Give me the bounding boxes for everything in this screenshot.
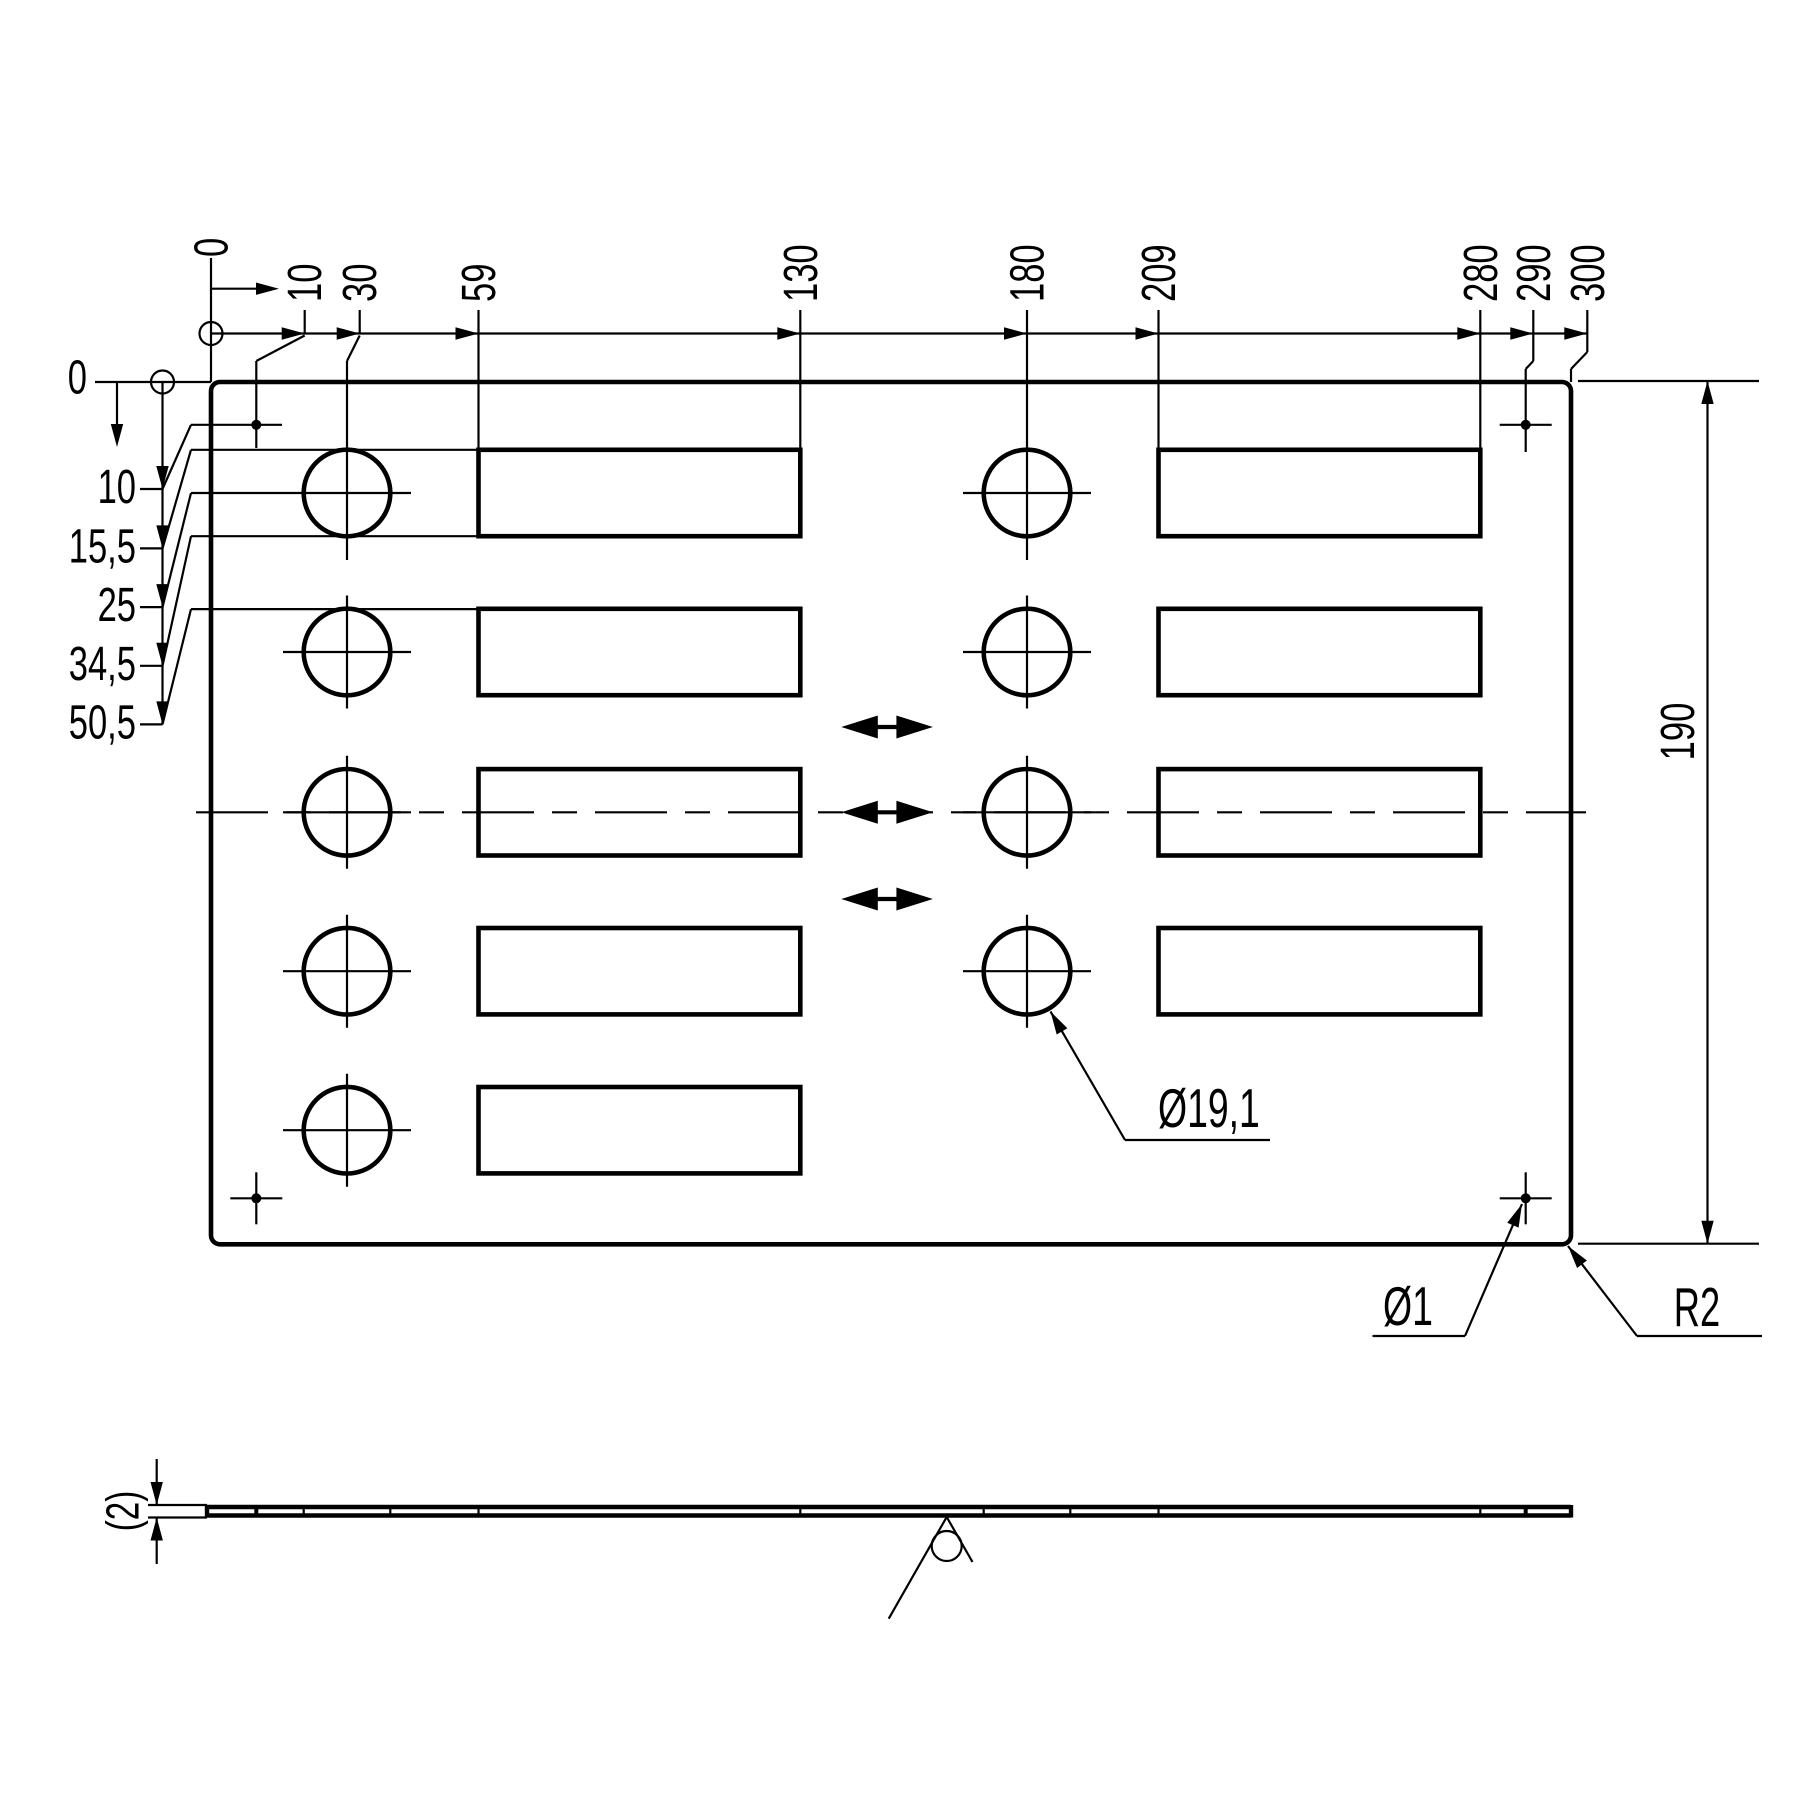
svg-text:300: 300 — [1560, 244, 1614, 302]
slot right column row 1 — [1159, 450, 1481, 536]
svg-text:130: 130 — [773, 244, 827, 302]
surface finish symbol (machining allowed, all over) — [889, 1517, 947, 1619]
centreline horizontal, right hole row 4 — [963, 970, 1091, 972]
svg-text:25: 25 — [98, 577, 136, 631]
svg-text:(2): (2) — [98, 1491, 148, 1531]
slot left column row 5 — [479, 1087, 801, 1173]
leader Ø1 (corner hole diameter) — [1507, 1204, 1522, 1228]
centreline vertical, left hole row 4 — [346, 915, 348, 1028]
svg-text:30: 30 — [333, 264, 387, 302]
dimension 190 extension line bottom — [1578, 1243, 1759, 1245]
centreline horizontal, left hole row 2 — [283, 651, 411, 653]
hole Ø19,1 left column row 2 — [304, 609, 391, 696]
dimension (2) arrows — [156, 1459, 158, 1505]
slot left column row 3 — [479, 769, 801, 855]
top ordinate dimension line — [211, 332, 1588, 334]
left ordinate dimension line — [161, 382, 163, 724]
centreline vertical, left hole row 2 — [346, 596, 348, 709]
hole Ø1 bottom-left centre mark — [251, 1193, 261, 1203]
double-headed arrow 1 (slide direction symbol) — [865, 725, 909, 729]
side view left end cap — [205, 1505, 209, 1518]
centreline vertical, right hole row 2 — [1026, 596, 1028, 709]
side view bottom surface line — [207, 1513, 1571, 1517]
svg-text:34,5: 34,5 — [69, 636, 136, 690]
left ordinate direction arrow — [116, 382, 118, 424]
slot left column row 4 — [479, 928, 801, 1014]
svg-text:15,5: 15,5 — [69, 519, 136, 573]
dimension 190 line — [1706, 381, 1708, 1244]
side view small hole edge marks — [254, 1507, 258, 1516]
svg-text:190: 190 — [1650, 703, 1704, 761]
dimension 190 extension line top — [1578, 380, 1759, 382]
leader Ø19,1 (hole diameter) — [1051, 1012, 1068, 1035]
hole Ø19,1 left column row 4 — [304, 928, 391, 1015]
hole Ø19,1 right column row 3 — [984, 769, 1071, 856]
svg-text:280: 280 — [1453, 244, 1507, 302]
double-headed arrow 2 (slide direction symbol) — [865, 810, 909, 814]
side view feature edge ticks — [303, 1507, 305, 1516]
left ordinate zero extension line — [95, 381, 211, 383]
left ordinate origin circle — [151, 371, 174, 394]
dimension (2) extension lines — [148, 1504, 207, 1506]
leader R2 (corner radius) — [1568, 1246, 1587, 1268]
hole Ø1 top-right centre mark — [1521, 420, 1531, 430]
svg-text:0: 0 — [68, 350, 87, 404]
svg-text:Ø1: Ø1 — [1383, 1275, 1433, 1337]
svg-text:10: 10 — [278, 264, 332, 302]
top ordinate origin circle — [200, 322, 223, 345]
centreline vertical, right hole row 3 — [1026, 756, 1028, 869]
hole Ø19,1 left column row 3 — [304, 769, 391, 856]
centreline horizontal, left hole row 5 — [283, 1129, 411, 1131]
centreline vertical, right hole row 4 — [1026, 915, 1028, 1028]
svg-text:50,5: 50,5 — [69, 695, 136, 749]
centreline horizontal, right hole row 3 — [963, 811, 1091, 813]
centreline vertical, left hole row 5 — [346, 1074, 348, 1187]
svg-text:59: 59 — [451, 264, 505, 302]
hole Ø19,1 right column row 4 — [984, 928, 1071, 1015]
svg-text:10: 10 — [98, 459, 136, 513]
double-headed arrow 3 (slide direction symbol) — [865, 897, 909, 901]
slot right column row 3 — [1159, 769, 1481, 855]
hole Ø1 bottom-right centre mark — [1521, 1193, 1531, 1203]
slot right column row 4 — [1159, 928, 1481, 1014]
svg-text:Ø19,1: Ø19,1 — [1158, 1077, 1260, 1139]
slot left column row 1 — [479, 450, 801, 536]
slot left column row 2 — [479, 609, 801, 695]
hole Ø19,1 left column row 5 — [304, 1087, 391, 1174]
hole Ø19,1 right column row 1 — [984, 450, 1071, 537]
centreline horizontal, left hole row 4 — [283, 970, 411, 972]
svg-text:180: 180 — [1000, 244, 1054, 302]
hole Ø19,1 right column row 2 — [984, 609, 1071, 696]
centreline horizontal, right hole row 2 — [963, 651, 1091, 653]
hole Ø1 top-left centre dot — [251, 420, 261, 430]
slot right column row 2 — [1159, 609, 1481, 695]
centreline horizontal, right hole row 1 — [963, 492, 1091, 494]
svg-text:290: 290 — [1506, 244, 1560, 302]
side view right end cap — [1569, 1505, 1573, 1518]
svg-text:209: 209 — [1131, 244, 1185, 302]
centreline vertical, left hole row 3 — [346, 756, 348, 869]
svg-text:R2: R2 — [1674, 1276, 1720, 1337]
centreline horizontal, left hole row 3 — [283, 811, 411, 813]
side view top surface line — [207, 1505, 1571, 1509]
top ordinate direction arrow — [211, 288, 258, 290]
horizontal dash-dot centreline of plate — [196, 811, 1586, 813]
hole Ø19,1 left column row 1 — [304, 450, 391, 537]
plate outline (top view, 300x190, R2 corners) — [211, 382, 1571, 1244]
svg-text:0: 0 — [184, 238, 238, 257]
top ordinate zero extension line — [210, 258, 212, 382]
